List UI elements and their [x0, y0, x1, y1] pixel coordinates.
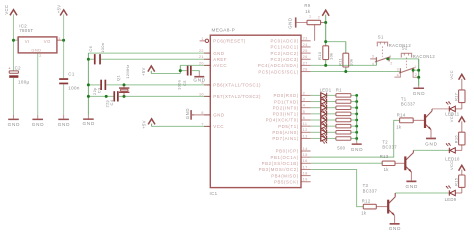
- svg-text:15: 15: [303, 153, 308, 157]
- svg-text:2: 2: [303, 91, 305, 95]
- svg-text:GND: GND: [31, 47, 41, 52]
- svg-text:1k: 1k: [305, 9, 311, 14]
- svg-text:PD7(AIN1): PD7(AIN1): [272, 136, 298, 141]
- svg-text:500: 500: [337, 145, 345, 150]
- svg-text:VO: VO: [44, 39, 51, 44]
- resistor R12 1k: [361, 198, 387, 215]
- svg-text:7: 7: [201, 122, 203, 126]
- svg-text:PB1(OC1A): PB1(OC1A): [270, 155, 298, 160]
- svg-text:12MHz: 12MHz: [125, 64, 130, 78]
- svg-text:C1: C1: [68, 72, 75, 77]
- svg-text:3: 3: [303, 97, 305, 101]
- svg-text:BC337: BC337: [363, 188, 378, 193]
- svg-text:27: 27: [303, 61, 308, 65]
- wire T2 collector to LED10: [413, 150, 449, 152]
- ground under C2: [8, 115, 21, 127]
- svg-text:R15: R15: [454, 177, 459, 186]
- svg-text:25: 25: [303, 49, 308, 53]
- junction crystal/XTAL2: [123, 95, 126, 98]
- svg-text:GND: GND: [8, 122, 21, 127]
- wire +5V to R10: [325, 23, 327, 46]
- svg-text:8: 8: [201, 111, 203, 115]
- svg-text:19: 19: [303, 178, 308, 182]
- LED LED1-5 with resistor R1-5: [311, 117, 357, 125]
- svg-text:C2: C2: [15, 65, 22, 70]
- wire switch gnd rail: [418, 59, 420, 86]
- ground under C1: [58, 115, 71, 127]
- wire XTAL2 net: [88, 95, 210, 97]
- wire S2 pin1 to gnd rail: [413, 69, 419, 71]
- svg-text:17: 17: [303, 165, 308, 169]
- svg-text:PD4(XCK/T0): PD4(XCK/T0): [266, 118, 299, 123]
- junction R1 rail row 3: [355, 106, 358, 109]
- junction AVCC/C5: [179, 69, 182, 72]
- svg-text:R9: R9: [304, 3, 310, 8]
- junction R1 rail row 8: [355, 137, 358, 140]
- wire GND pin22 net: [88, 52, 210, 54]
- svg-text:13: 13: [303, 134, 308, 138]
- LED LED1-4 with resistor R1-4: [311, 111, 357, 119]
- svg-text:7805T: 7805T: [19, 28, 33, 33]
- svg-text:GND: GND: [32, 122, 45, 127]
- ground at C5: [193, 73, 206, 83]
- junction rail/XTAL1: [87, 83, 90, 86]
- LED LED9: [445, 186, 462, 203]
- wire AVCC net: [151, 65, 210, 73]
- svg-text:PB6(XTAL1/TOSC1): PB6(XTAL1/TOSC1): [213, 83, 261, 88]
- junction R1 rail row 2: [355, 100, 358, 103]
- svg-text:R1: R1: [336, 87, 342, 92]
- junction rail/S2 pin2: [417, 76, 420, 79]
- ground at T2 emitter: [405, 180, 418, 189]
- svg-text:GND: GND: [82, 121, 95, 126]
- ground on mid rail: [82, 115, 95, 126]
- svg-text:PD3(INT1): PD3(INT1): [273, 112, 299, 117]
- svg-text:R16: R16: [454, 135, 459, 144]
- junction R11/PC5 wire: [344, 70, 347, 73]
- ground at R9 (rotated): [288, 17, 307, 28]
- wire T3 collector to LED9: [395, 193, 449, 197]
- wire C1 to ground: [63, 84, 65, 115]
- supply VCC arrow at R15: [449, 161, 465, 176]
- svg-text:100n: 100n: [68, 85, 80, 90]
- svg-text:+5V: +5V: [56, 5, 61, 14]
- capacitor C5 100n (AVCC): [177, 66, 200, 90]
- LED LED1-7 with resistor R1-7: [311, 130, 357, 138]
- svg-text:PD2(INT0): PD2(INT0): [273, 105, 299, 110]
- svg-text:BC337: BC337: [382, 145, 397, 150]
- svg-text:11: 11: [303, 122, 308, 126]
- svg-text:PB5(SCK): PB5(SCK): [274, 179, 299, 184]
- svg-text:PB4(MISO): PB4(MISO): [271, 173, 299, 178]
- junction on XTAL2 wire: [105, 95, 108, 98]
- svg-text:T2: T2: [382, 139, 388, 144]
- svg-text:6: 6: [303, 116, 305, 120]
- svg-text:R13: R13: [380, 154, 389, 159]
- wire PB3 net to R12: [311, 169, 364, 206]
- svg-text:GND: GND: [193, 78, 206, 83]
- junction at regulator input: [12, 39, 15, 42]
- svg-text:PB7(XTAL2/TOSC2): PB7(XTAL2/TOSC2): [213, 94, 261, 99]
- svg-text:1: 1: [389, 54, 391, 58]
- svg-text:PB2(SS/OC1B): PB2(SS/OC1B): [262, 161, 299, 166]
- resistor R15: [454, 175, 465, 187]
- svg-text:S2: S2: [402, 46, 408, 51]
- switch S2 RACON12: [394, 46, 435, 78]
- svg-text:PC5(ADC5/SCL): PC5(ADC5/SCL): [258, 69, 298, 74]
- wire T1 collector to LED11: [432, 108, 449, 110]
- svg-text:GND: GND: [288, 17, 293, 28]
- junction rail/S2 pin1: [417, 69, 420, 72]
- ground under regulator: [32, 115, 45, 127]
- LED LED1-8 with resistor R1-8: [311, 136, 357, 144]
- svg-text:18: 18: [303, 172, 308, 176]
- svg-text:AREF: AREF: [213, 57, 227, 62]
- svg-text:4: 4: [397, 73, 399, 77]
- label LED1 / R1: [320, 87, 343, 92]
- svg-text:GND: GND: [389, 226, 402, 231]
- junction R1 rail row 4: [355, 112, 358, 115]
- junction crystal/XTAL1: [123, 83, 126, 86]
- svg-text:PC6(/RESET): PC6(/RESET): [213, 39, 246, 44]
- svg-text:2: 2: [318, 15, 320, 19]
- svg-text:12: 12: [303, 128, 308, 132]
- svg-text:9: 9: [201, 81, 203, 85]
- supply VCC arrow at R16: [449, 113, 465, 133]
- wire PC4 net to S1: [311, 64, 377, 66]
- junction R9/+5V: [324, 21, 327, 24]
- svg-text:+5V: +5V: [141, 67, 146, 76]
- capacitor C3 22p: [92, 80, 106, 95]
- wire VCC rail down to GND: [13, 40, 15, 115]
- svg-text:100µ: 100µ: [18, 79, 30, 84]
- svg-text:R11: R11: [337, 57, 342, 66]
- svg-text:26: 26: [303, 55, 308, 59]
- svg-text:28: 28: [303, 67, 308, 71]
- wire gnd rail left of IC1: [87, 53, 89, 115]
- capacitor C6 100n (AREF): [88, 43, 211, 65]
- svg-text:BC337: BC337: [401, 102, 416, 107]
- svg-text:PD5(T1): PD5(T1): [278, 124, 299, 129]
- svg-text:1: 1: [414, 65, 416, 69]
- svg-text:VI: VI: [25, 39, 30, 44]
- wire PC5 net to S2: [311, 71, 401, 73]
- svg-text:3: 3: [372, 55, 374, 59]
- svg-text:3: 3: [397, 68, 399, 72]
- svg-text:Q1: Q1: [115, 75, 120, 81]
- wire S2 pin2 to gnd rail: [413, 73, 419, 78]
- wire PB2 net to R13: [311, 162, 383, 164]
- ground under switches: [413, 86, 426, 96]
- svg-text:GND: GND: [58, 122, 71, 127]
- label 500: [337, 145, 345, 150]
- svg-text:1k: 1k: [396, 124, 402, 129]
- wire branch to R11: [326, 42, 346, 54]
- resistor R13 1k: [380, 154, 405, 172]
- svg-text:PD1(TXD): PD1(TXD): [274, 99, 299, 104]
- junction R1 rail row 7: [355, 131, 358, 134]
- svg-text:GND: GND: [405, 184, 418, 189]
- junction rail/XTAL2: [87, 95, 90, 98]
- svg-text:RACON12: RACON12: [389, 43, 412, 48]
- capacitor C1 100n: [59, 72, 80, 91]
- svg-text:LED1: LED1: [320, 87, 332, 92]
- svg-text:24: 24: [303, 43, 308, 47]
- svg-text:1: 1: [201, 37, 203, 41]
- wire PB1 net to R14: [311, 120, 400, 157]
- svg-text:S1: S1: [378, 35, 384, 40]
- svg-text:5: 5: [303, 110, 305, 114]
- svg-text:14: 14: [303, 147, 308, 151]
- capacitor C2 100u (polarized): [8, 65, 29, 84]
- svg-text:PC2(ADC2): PC2(ADC2): [270, 51, 298, 56]
- capacitor C4 22p: [105, 91, 119, 107]
- svg-text:R17: R17: [454, 92, 459, 101]
- ground at IC1 pin 8 (rotated): [185, 108, 210, 120]
- LED LED11: [445, 101, 462, 116]
- wire R9 to IC1 pin 23: [314, 25, 316, 41]
- svg-text:R14: R14: [397, 112, 406, 117]
- svg-text:10k: 10k: [349, 59, 354, 67]
- transistor T2 BC337: [382, 139, 413, 180]
- svg-text:GND: GND: [425, 141, 438, 146]
- svg-text:MEGA8-P: MEGA8-P: [212, 28, 236, 33]
- svg-text:1: 1: [309, 15, 311, 19]
- supply +5V arrow at AVCC: [141, 66, 155, 76]
- LED LED1-2 with resistor R1-2: [311, 99, 357, 107]
- svg-text:23: 23: [303, 37, 308, 41]
- svg-text:IC1: IC1: [210, 191, 218, 196]
- junction R1 rail row 1: [355, 94, 358, 97]
- switch S1 RACON12: [370, 35, 411, 66]
- svg-text:10k: 10k: [329, 53, 334, 61]
- ground at T3 emitter: [389, 223, 402, 232]
- wire XTAL1 net: [88, 84, 210, 86]
- supply +5V arrow at VCC pin7: [142, 119, 155, 129]
- wire regulator VI: [14, 39, 19, 41]
- svg-text:1k: 1k: [361, 210, 367, 215]
- svg-text:VCC: VCC: [449, 70, 454, 80]
- svg-text:AVCC: AVCC: [213, 63, 227, 68]
- svg-text:16: 16: [303, 159, 308, 163]
- svg-text:1: 1: [16, 37, 18, 41]
- svg-text:21: 21: [199, 55, 204, 59]
- svg-text:R12: R12: [362, 198, 371, 203]
- wire S1 to gnd rail: [388, 58, 419, 60]
- svg-text:2: 2: [390, 62, 392, 66]
- svg-text:PD0(RXD): PD0(RXD): [273, 93, 298, 98]
- svg-text:GND: GND: [351, 147, 364, 152]
- LED LED1-3 with resistor R1-3: [311, 105, 357, 113]
- svg-text:PC4(ADC4/SDA): PC4(ADC4/SDA): [258, 63, 299, 68]
- junction S1 right contact: [386, 58, 389, 61]
- junction above R10: [324, 40, 327, 43]
- supply VCC arrow at R17: [449, 70, 465, 90]
- wire regulator GND pin down: [37, 53, 39, 115]
- svg-text:GND: GND: [185, 108, 190, 119]
- svg-text:VCC: VCC: [213, 124, 224, 129]
- wire VCC pin7 net: [152, 125, 211, 127]
- svg-text:2: 2: [39, 54, 41, 58]
- svg-text:PC1(ADC1): PC1(ADC1): [270, 45, 298, 50]
- svg-text:+5V: +5V: [142, 120, 147, 129]
- svg-text:2: 2: [415, 73, 417, 77]
- LED LED10: [445, 143, 462, 162]
- svg-text:VCC: VCC: [4, 5, 9, 15]
- svg-text:GND: GND: [213, 51, 224, 56]
- svg-text:100n: 100n: [100, 43, 105, 53]
- junction R10/PC4 wire: [324, 64, 327, 67]
- supply +5V arrow (output rail): [56, 5, 67, 79]
- svg-text:GND: GND: [213, 113, 224, 118]
- supply +5V arrow top right: [322, 10, 329, 22]
- ground under R1 rail: [351, 142, 364, 152]
- svg-text:20: 20: [199, 61, 204, 65]
- svg-text:PC3(ADC3): PC3(ADC3): [270, 57, 298, 62]
- svg-text:C6: C6: [88, 45, 93, 51]
- svg-text:GND: GND: [413, 91, 426, 96]
- svg-text:R10: R10: [317, 51, 322, 60]
- junction S2 right contact: [412, 69, 415, 72]
- resistor R10 10k: [317, 46, 333, 66]
- resistor R17: [454, 90, 465, 103]
- resistor R9 1k: [304, 3, 325, 24]
- supply VCC arrow (input rail): [4, 5, 17, 41]
- wire R1 common rail: [356, 95, 358, 141]
- ground at T1 emitter: [425, 137, 438, 146]
- IC U1: microcontroller IC1 MEGA8-P: [199, 28, 311, 197]
- svg-text:1k: 1k: [384, 167, 390, 172]
- resistor R11 10k: [337, 53, 353, 71]
- transistor T1 BC337: [401, 96, 432, 137]
- svg-text:PC0(ADC0): PC0(ADC0): [270, 39, 298, 44]
- LED LED1-1 with resistor R1-1: [311, 93, 357, 101]
- svg-text:4: 4: [372, 62, 374, 66]
- junction R1 rail row 5: [355, 119, 358, 122]
- resistor R14 1k: [396, 112, 424, 129]
- junction C6/AREF: [87, 58, 90, 61]
- crystal Q1 12MHz: [115, 64, 130, 96]
- svg-text:RACON12: RACON12: [413, 54, 436, 59]
- svg-text:22: 22: [199, 49, 204, 53]
- junction R1 rail row 6: [355, 125, 358, 128]
- svg-text:PB3(MOSI/OC2): PB3(MOSI/OC2): [259, 167, 299, 172]
- svg-text:VCC: VCC: [449, 161, 454, 171]
- svg-text:VCC: VCC: [449, 113, 454, 123]
- svg-text:10: 10: [199, 92, 204, 96]
- svg-text:PD6(AIN0): PD6(AIN0): [272, 130, 298, 135]
- svg-text:4: 4: [303, 104, 305, 108]
- svg-text:LED9: LED9: [445, 197, 457, 202]
- resistor R16: [454, 132, 465, 145]
- transistor T3 BC337: [363, 183, 396, 222]
- svg-text:PB0(ICP): PB0(ICP): [276, 149, 299, 154]
- voltage regulator IC2 7805T: [16, 24, 63, 58]
- junction at regulator output: [62, 39, 65, 42]
- LED LED1-6 with resistor R1-6: [311, 123, 357, 131]
